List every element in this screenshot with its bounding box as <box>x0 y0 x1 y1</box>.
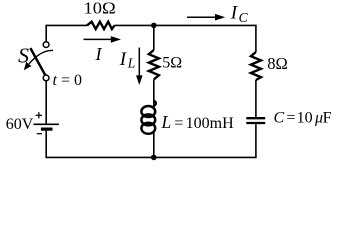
svg-text:C=10μF: C=10μF <box>274 109 332 126</box>
svg-text:8Ω: 8Ω <box>267 54 288 73</box>
svg-text:C: C <box>239 10 249 25</box>
svg-text:L: L <box>127 56 136 71</box>
svg-text:5Ω: 5Ω <box>162 55 182 72</box>
svg-text:S: S <box>18 43 30 67</box>
svg-text:10Ω: 10Ω <box>84 0 116 18</box>
svg-text:I: I <box>95 44 103 64</box>
svg-text:t = 0: t = 0 <box>53 72 82 89</box>
svg-text:60V: 60V <box>6 116 34 133</box>
